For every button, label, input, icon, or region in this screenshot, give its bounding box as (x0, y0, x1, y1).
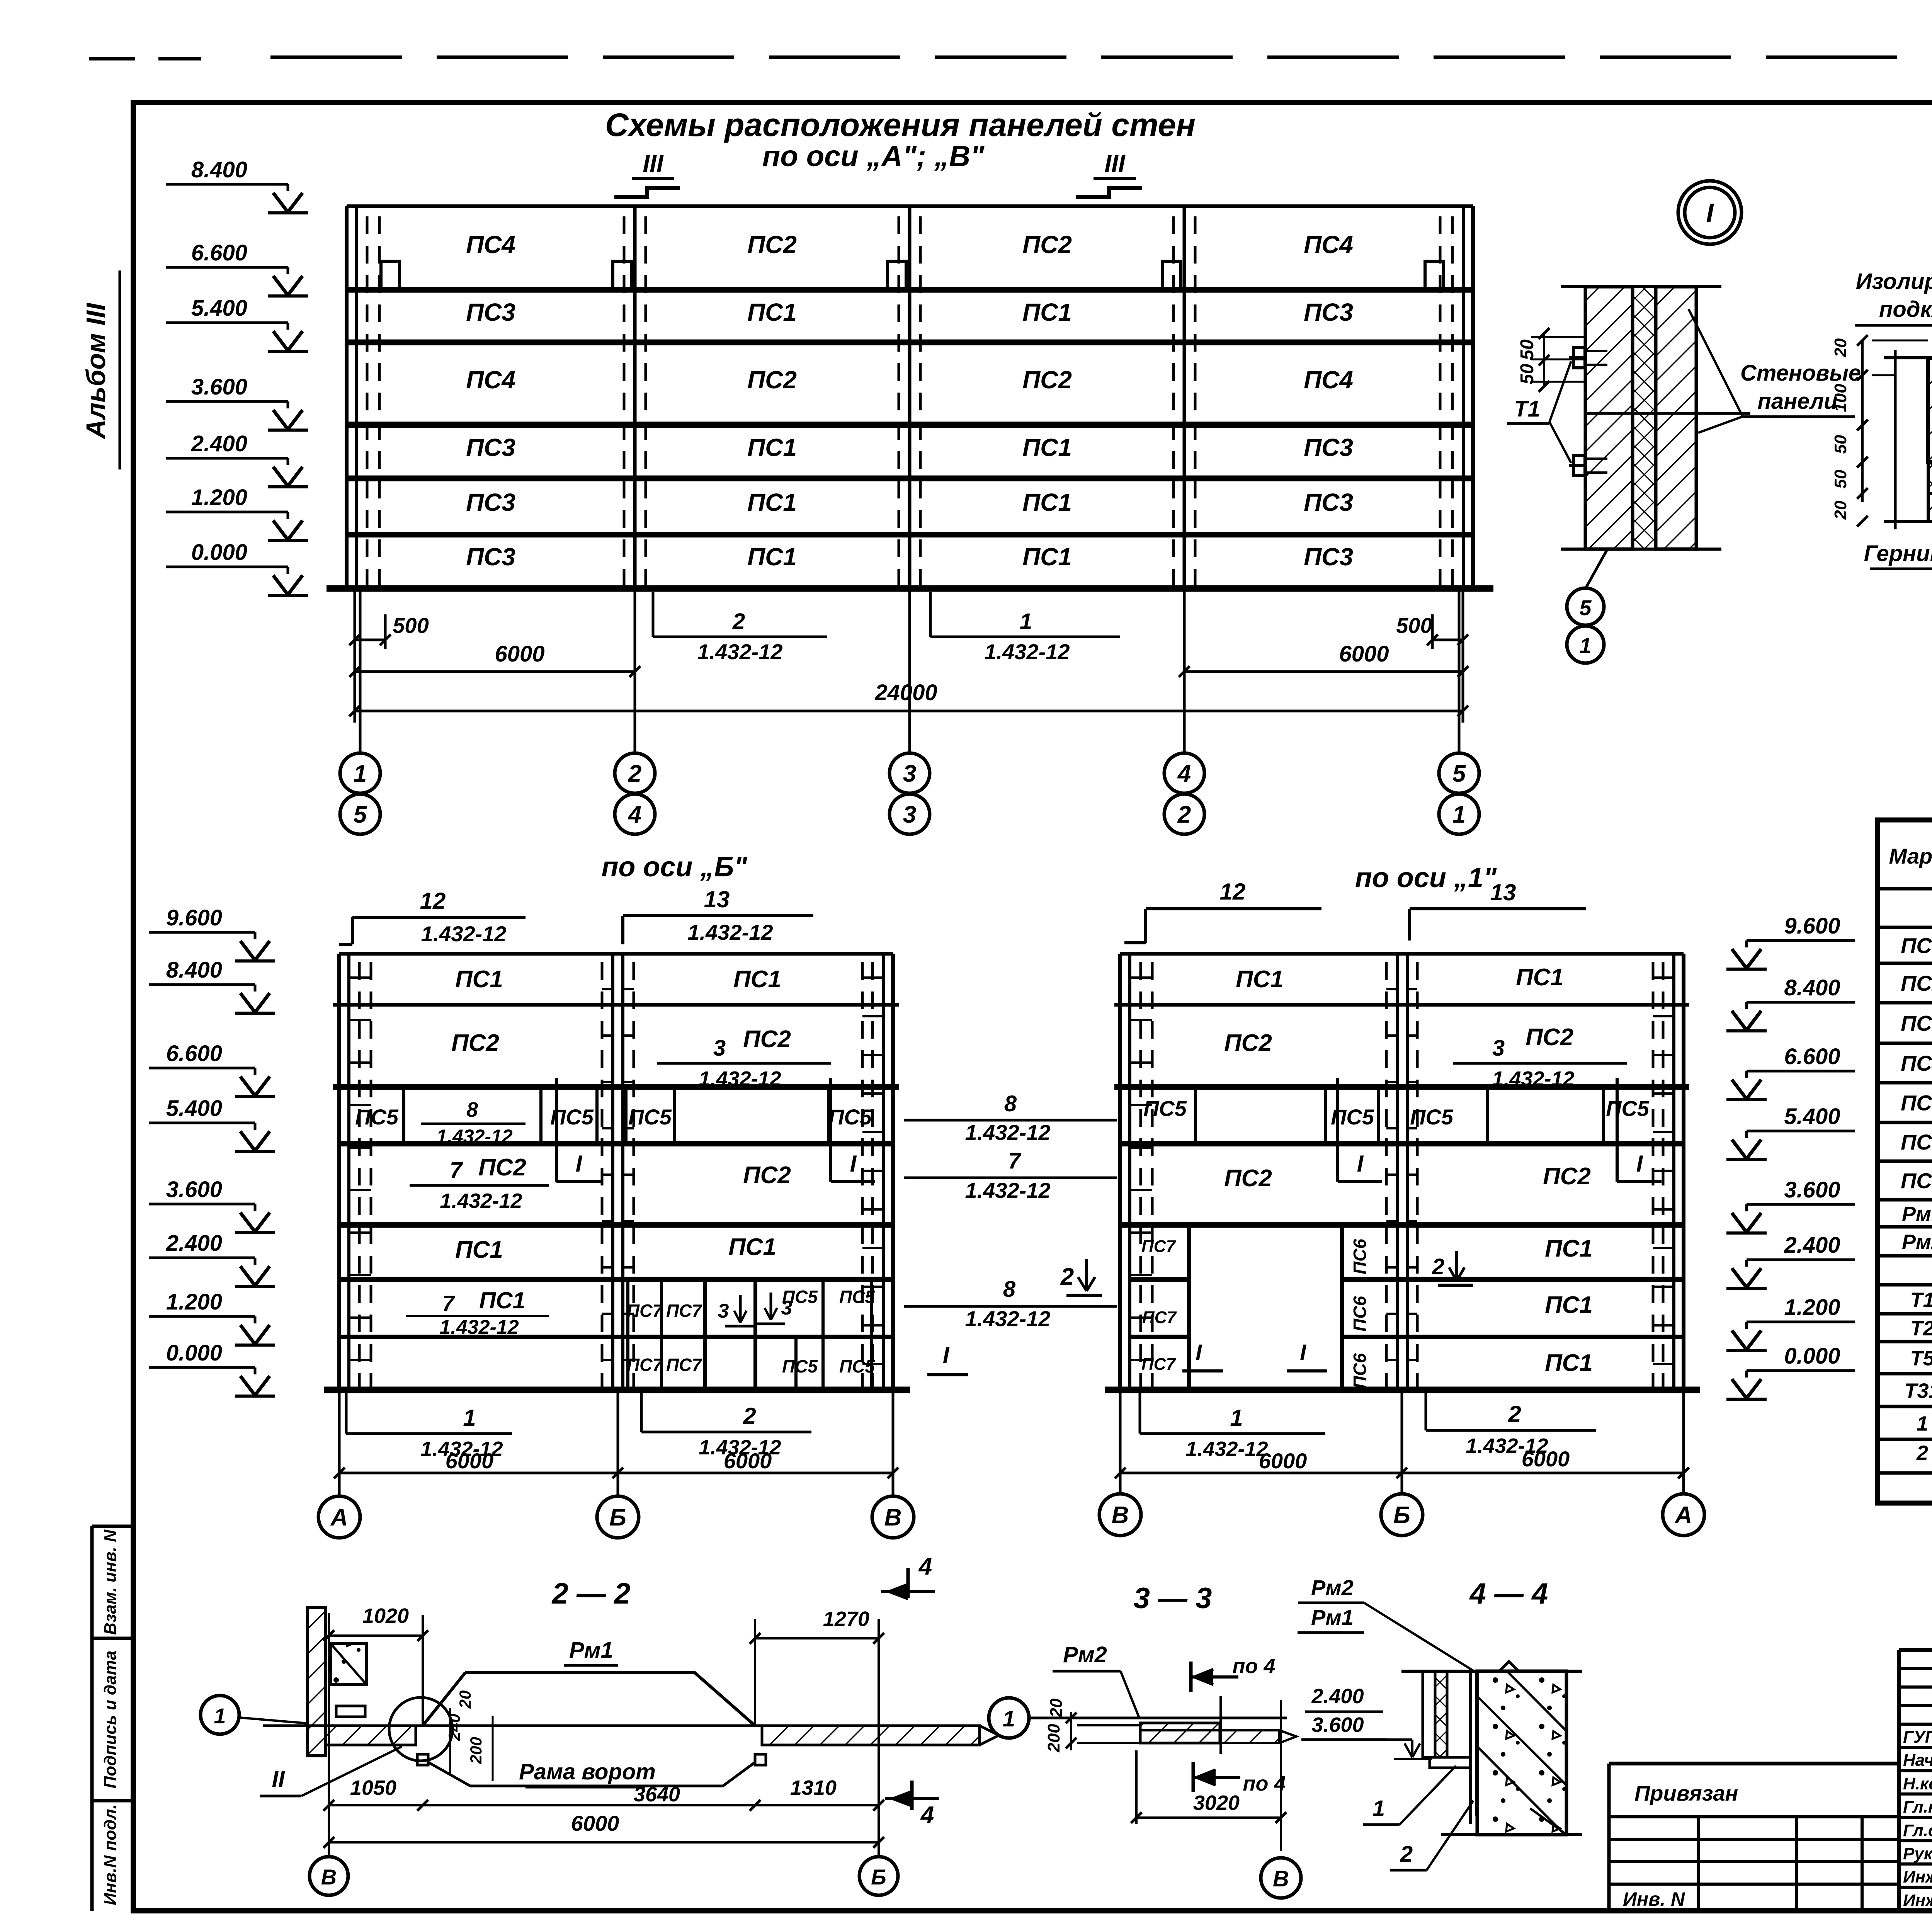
svg-text:7: 7 (450, 1158, 463, 1183)
left sub block Привязан (1609, 1762, 1899, 1765)
svg-text:Н.контр: Н.контр (1903, 1774, 1932, 1793)
elevation mark 9.600 (149, 905, 275, 961)
top scheme right edge column (1471, 206, 1475, 588)
svg-text:2: 2 (1508, 1401, 1521, 1427)
svg-text:В: В (1273, 1866, 1289, 1891)
detail II left break lines (1894, 350, 1897, 529)
4-4 wall layers (1423, 1671, 1435, 1757)
3-3 bubble В (1261, 1858, 1301, 1898)
scheme B ground line (324, 1387, 910, 1393)
svg-text:6.600: 6.600 (166, 1041, 222, 1066)
elevation mark 1.200 (149, 1289, 275, 1345)
elevation mark 3.600 (1726, 1177, 1855, 1233)
svg-text:4: 4 (628, 801, 641, 828)
elevation mark 6.600 (149, 1041, 275, 1097)
svg-text:ПС2: ПС2 (451, 1030, 499, 1056)
svg-text:Т5: Т5 (1910, 1347, 1932, 1370)
4-4 top line (1401, 1670, 1582, 1673)
detail I insulation layer (1633, 287, 1656, 549)
svg-text:3 — 3: 3 — 3 (1134, 1582, 1212, 1615)
svg-text:4: 4 (918, 1553, 932, 1580)
svg-text:1.200: 1.200 (166, 1289, 222, 1315)
elevation mark 8.400 (1726, 975, 1855, 1031)
svg-text:ПС1: ПС1 (747, 488, 797, 516)
scheme 1 right edge column (1682, 954, 1685, 1390)
svg-text:Рм2: Рм2 (1902, 1231, 1932, 1254)
svg-text:1.432-12: 1.432-12 (440, 1189, 522, 1213)
elevation mark 5.400 (149, 1096, 275, 1151)
svg-text:5: 5 (1452, 760, 1466, 787)
svg-text:20: 20 (1047, 1698, 1066, 1718)
svg-text:ПС1: ПС1 (728, 1234, 776, 1260)
svg-text:13: 13 (1490, 879, 1516, 905)
svg-text:ПС1: ПС1 (1022, 298, 1072, 326)
3-3 section mark по 4 top (1189, 1662, 1193, 1692)
3-3 thin lines left (1077, 1724, 1140, 1726)
svg-text:500: 500 (1396, 613, 1432, 638)
svg-text:ПС5: ПС5 (828, 1105, 872, 1129)
svg-text:4 — 4: 4 — 4 (1469, 1577, 1548, 1610)
scheme B dim line (339, 1472, 893, 1475)
svg-text:ПС3: ПС3 (466, 298, 515, 326)
svg-text:1.432-12: 1.432-12 (965, 1306, 1050, 1331)
svg-text:1: 1 (1372, 1796, 1385, 1821)
svg-text:50: 50 (1517, 339, 1537, 360)
svg-text:Альбом III: Альбом III (81, 303, 111, 440)
svg-text:ПС5: ПС5 (839, 1287, 875, 1307)
svg-text:Гл.спец.: Гл.спец. (1903, 1821, 1932, 1840)
svg-text:1.432-12: 1.432-12 (687, 920, 773, 944)
inter-scheme leader 8b / 1.432-12 (904, 1305, 1117, 1308)
svg-text:ПС5: ПС5 (628, 1105, 672, 1129)
axis bubbles row 1 (340, 753, 380, 793)
svg-text:Инженер: Инженер (1903, 1867, 1932, 1886)
svg-text:2: 2 (628, 760, 641, 787)
detail II lower band (1928, 493, 1932, 521)
svg-text:1310: 1310 (790, 1776, 837, 1799)
4-4 bottom line (1441, 1833, 1582, 1836)
svg-text:Рама ворот: Рама ворот (519, 1759, 656, 1784)
2-2 corner block (331, 1644, 366, 1684)
elevation mark 9.600 (1726, 913, 1855, 969)
svg-text:I: I (943, 1342, 950, 1368)
svg-text:III: III (1104, 150, 1126, 177)
4-4 vertical plate (1469, 1671, 1472, 1824)
left attribute strip (90, 1526, 94, 1911)
column top bracket (381, 261, 400, 290)
svg-text:I: I (850, 1151, 857, 1177)
svg-text:Инв. N: Инв. N (1623, 1888, 1685, 1910)
svg-text:ПС1: ПС1 (1545, 1235, 1593, 1262)
detail I leader to bubbles (1586, 549, 1607, 587)
svg-text:0.000: 0.000 (1784, 1344, 1840, 1369)
scheme 1 dim line (1120, 1472, 1684, 1475)
svg-text:1: 1 (214, 1704, 226, 1728)
svg-text:6000: 6000 (446, 1449, 494, 1473)
svg-text:ПС3: ПС3 (466, 488, 515, 516)
svg-text:ПС4: ПС4 (466, 231, 515, 259)
detail II main panel (1928, 358, 1932, 462)
svg-text:1.432-12: 1.432-12 (1185, 1437, 1268, 1461)
svg-text:1: 1 (1452, 801, 1466, 828)
scheme 1 axis extensions (1119, 1390, 1122, 1495)
svg-text:Рм1: Рм1 (1311, 1605, 1354, 1629)
top scheme horizontal panel joints (347, 204, 1473, 208)
svg-text:ПС2: ПС2 (743, 1162, 791, 1189)
scheme 1 left edge column (1118, 954, 1122, 1390)
scheme B column strip ladder marks (349, 976, 371, 979)
svg-text:ПС1: ПС1 (747, 298, 797, 326)
svg-text:ПС6: ПС6 (1350, 1296, 1370, 1332)
svg-text:ПС1: ПС1 (1901, 934, 1932, 958)
svg-text:3020: 3020 (1193, 1791, 1240, 1815)
svg-text:ПС2: ПС2 (478, 1154, 526, 1181)
scheme 1 column strip ladder marks (1130, 976, 1152, 979)
svg-text:12: 12 (420, 888, 446, 914)
svg-text:Т31: Т31 (1904, 1379, 1932, 1403)
detail I bubble 1 (1567, 626, 1604, 663)
scheme B axis column (611, 954, 614, 1390)
svg-text:Т1: Т1 (1514, 396, 1540, 422)
svg-text:ПС5: ПС5 (1143, 1096, 1187, 1121)
top scheme column axis line x=3065 (1183, 206, 1186, 588)
svg-text:ПС4: ПС4 (1901, 1051, 1932, 1075)
svg-text:1.432-12: 1.432-12 (1492, 1067, 1574, 1090)
elevation mark 5.400 (1726, 1104, 1855, 1160)
top scheme column axis line x=1643 (633, 206, 637, 588)
svg-text:Гернит: Гернит (1864, 541, 1932, 566)
svg-text:I: I (1706, 198, 1714, 228)
svg-text:1.432-12: 1.432-12 (421, 922, 506, 946)
svg-text:Рм2: Рм2 (1311, 1575, 1354, 1600)
svg-text:2: 2 (732, 609, 745, 634)
svg-text:ПС6: ПС6 (1350, 1353, 1370, 1389)
svg-text:0.000: 0.000 (166, 1340, 222, 1366)
svg-text:ПС1: ПС1 (455, 1236, 503, 1263)
scheme 1 axis column (1396, 954, 1399, 1390)
3-3 bubble 1 (989, 1698, 1029, 1738)
svg-text:ПС2: ПС2 (1022, 231, 1072, 259)
svg-text:ПС2: ПС2 (1526, 1024, 1573, 1051)
2-2 panel strip right (762, 1726, 980, 1745)
svg-text:Инв.N подл.: Инв.N подл. (101, 1804, 120, 1905)
svg-text:8.400: 8.400 (166, 957, 222, 983)
svg-text:II: II (272, 1766, 285, 1792)
svg-text:8.400: 8.400 (1784, 975, 1840, 1000)
svg-text:6000: 6000 (1339, 641, 1389, 667)
svg-text:3640: 3640 (634, 1783, 680, 1806)
svg-text:ПС1: ПС1 (747, 543, 797, 571)
svg-text:ПС1: ПС1 (1022, 434, 1072, 461)
svg-text:2: 2 (743, 1403, 756, 1429)
elevation mark 3.600 (149, 1177, 275, 1233)
elevation mark 0.000 (166, 540, 308, 595)
svg-text:12: 12 (1220, 879, 1246, 905)
detail I bubble (1678, 181, 1742, 244)
svg-text:2.400: 2.400 (1784, 1233, 1840, 1258)
svg-text:ПС6: ПС6 (1901, 1130, 1932, 1154)
inter-scheme leader 8 / 1.432-12 (904, 1119, 1117, 1122)
svg-text:1.432-12: 1.432-12 (436, 1126, 513, 1147)
elevation mark 0.000 (1726, 1344, 1855, 1399)
svg-text:2: 2 (1060, 1264, 1074, 1290)
svg-text:2.400: 2.400 (166, 1231, 222, 1256)
svg-text:по 4: по 4 (1232, 1655, 1275, 1678)
svg-text:3: 3 (713, 1036, 726, 1061)
svg-text:ПС2: ПС2 (1901, 971, 1932, 995)
2-2 left wall (308, 1607, 325, 1756)
detail II minwool band (1928, 462, 1932, 493)
svg-text:Б: Б (609, 1504, 626, 1531)
T1 leader detail I (1549, 361, 1571, 422)
svg-text:20: 20 (456, 1690, 474, 1709)
2-2 detail circle (389, 1697, 452, 1761)
svg-text:2.400: 2.400 (1311, 1685, 1364, 1708)
2-2 axis bubbles (310, 1857, 348, 1895)
svg-text:Схемы расположения панел: Схемы расположения панелей стен (605, 107, 1196, 143)
svg-text:Подпись и дата: Подпись и дата (101, 1651, 120, 1789)
svg-text:4: 4 (920, 1802, 934, 1828)
svg-text:ПС5: ПС5 (1606, 1096, 1650, 1121)
svg-text:6000: 6000 (724, 1449, 772, 1473)
detail I wall panel right layer (1656, 287, 1696, 549)
detail I mid joint (1585, 412, 1750, 415)
svg-text:ПС7: ПС7 (666, 1355, 702, 1375)
svg-text:2: 2 (1432, 1254, 1444, 1279)
svg-text:ПС3: ПС3 (1901, 1011, 1932, 1036)
elevation mark 6.600 (166, 240, 308, 296)
scheme 1 PS5 row cells (1194, 1087, 1197, 1144)
elevation mark 2.400 (166, 431, 308, 487)
3-3 section mark по 4 bottom (1192, 1762, 1195, 1792)
svg-text:24000: 24000 (874, 680, 937, 705)
elevation mark 3.600 (166, 374, 308, 430)
svg-text:Инженер: Инженер (1903, 1891, 1932, 1910)
spec table grid (1878, 820, 1932, 1503)
svg-text:3: 3 (781, 1297, 793, 1319)
2-2 gate frame bottom (428, 1762, 755, 1786)
svg-text:ПС5: ПС5 (1901, 1091, 1932, 1115)
svg-text:Б: Б (1393, 1502, 1410, 1529)
svg-text:6000: 6000 (1522, 1447, 1570, 1471)
elevation mark 8.400 (166, 157, 308, 213)
svg-text:5: 5 (354, 801, 367, 828)
svg-text:ПС1: ПС1 (479, 1287, 526, 1313)
svg-text:8: 8 (1003, 1277, 1016, 1302)
svg-text:ПС7: ПС7 (666, 1301, 702, 1321)
elevation mark 1.200 (166, 485, 308, 541)
svg-text:ПС3: ПС3 (466, 543, 515, 571)
detail I bottom break line (1561, 548, 1721, 551)
scheme B axis extensions (338, 1390, 341, 1496)
elevation mark 1.200 (1726, 1295, 1855, 1350)
elevation mark 0.000 (149, 1340, 275, 1396)
top scheme ground line (327, 585, 1493, 592)
title block signature table (1897, 1650, 1901, 1911)
svg-text:4: 4 (1177, 760, 1191, 787)
svg-text:Привязан: Привязан (1634, 1781, 1738, 1805)
scheme 1 ground line (1105, 1387, 1700, 1393)
svg-text:3.600: 3.600 (166, 1177, 222, 1202)
svg-text:ПС7: ПС7 (627, 1301, 663, 1321)
svg-text:1: 1 (354, 760, 367, 787)
svg-text:ПС2: ПС2 (1022, 366, 1072, 394)
svg-text:Изолирующая: Изолирующая (1856, 269, 1932, 294)
detail I wall panel left layer (1585, 287, 1633, 549)
svg-text:1.432-12: 1.432-12 (697, 639, 782, 664)
svg-text:500: 500 (393, 613, 429, 638)
svg-text:Рук. гр.: Рук. гр. (1903, 1844, 1932, 1863)
svg-text:5.400: 5.400 (1784, 1104, 1840, 1129)
svg-text:ПС6: ПС6 (1350, 1239, 1370, 1274)
svg-text:8: 8 (466, 1098, 478, 1121)
svg-text:ПС1: ПС1 (1516, 964, 1564, 991)
svg-text:Т2: Т2 (1910, 1317, 1932, 1340)
section 4 flag top (906, 1568, 910, 1598)
svg-text:1: 1 (1020, 609, 1032, 634)
svg-text:Марка: Марка (1889, 844, 1932, 868)
svg-text:III: III (643, 150, 664, 177)
svg-text:Рм1: Рм1 (569, 1638, 613, 1663)
svg-text:1.432-12: 1.432-12 (439, 1316, 519, 1338)
elevation mark 5.400 (166, 296, 308, 351)
2-2 frame squares (417, 1754, 428, 1765)
3-3 panel (1140, 1723, 1220, 1743)
svg-text:ПС4: ПС4 (466, 366, 515, 394)
svg-text:2 — 2: 2 — 2 (551, 1577, 631, 1610)
bubble 1 far left (201, 1696, 239, 1734)
svg-text:Гл.конст.: Гл.конст. (1903, 1798, 1932, 1816)
svg-text:0.000: 0.000 (191, 540, 247, 565)
svg-text:50: 50 (1831, 469, 1850, 488)
section I marks row4 (555, 1078, 558, 1182)
svg-text:6000: 6000 (571, 1811, 619, 1835)
svg-text:Взам. инв. N: Взам. инв. N (101, 1529, 120, 1635)
svg-text:240: 240 (445, 1714, 463, 1741)
svg-text:50: 50 (1831, 435, 1850, 454)
svg-text:Б: Б (871, 1865, 886, 1889)
svg-text:ПС3: ПС3 (466, 434, 515, 461)
svg-text:1050: 1050 (350, 1776, 396, 1799)
svg-text:Рм1: Рм1 (1902, 1202, 1932, 1226)
svg-text:по 4: по 4 (1243, 1772, 1286, 1795)
svg-text:панели: панели (1757, 389, 1837, 414)
svg-text:5.400: 5.400 (166, 1096, 222, 1121)
2-2 gate frame top (423, 1673, 755, 1726)
scheme 1 horizontal joints (1120, 952, 1684, 956)
3-3 extension lines (1135, 1750, 1138, 1824)
svg-text:1.432-12: 1.432-12 (699, 1067, 781, 1090)
svg-text:1.200: 1.200 (191, 485, 247, 510)
4-4 concrete mass (1477, 1671, 1566, 1835)
svg-text:ПС1: ПС1 (747, 434, 797, 461)
svg-text:ПС7: ПС7 (1142, 1308, 1177, 1327)
svg-text:ПС5: ПС5 (839, 1356, 875, 1376)
svg-text:3.600: 3.600 (1784, 1177, 1840, 1202)
svg-text:2: 2 (1916, 1442, 1928, 1465)
svg-text:8: 8 (1004, 1091, 1017, 1116)
svg-text:2: 2 (1177, 801, 1191, 828)
svg-text:ПС3: ПС3 (1304, 488, 1353, 516)
svg-text:ПС2: ПС2 (1224, 1030, 1272, 1056)
svg-text:I: I (1636, 1151, 1643, 1177)
top scheme left edge column (345, 206, 349, 588)
2-2 small plate (336, 1706, 365, 1717)
scheme 1 door jambs (1187, 1225, 1191, 1390)
svg-text:6000: 6000 (1259, 1449, 1307, 1473)
svg-text:Нач. АСО: Нач. АСО (1903, 1751, 1932, 1770)
svg-text:ПС5: ПС5 (782, 1356, 818, 1376)
svg-text:200: 200 (1044, 1724, 1063, 1753)
svg-text:Рм2: Рм2 (1063, 1642, 1107, 1667)
scheme B left edge column (337, 954, 341, 1390)
svg-text:Стеновые: Стеновые (1740, 361, 1861, 386)
svg-text:ПС2: ПС2 (1543, 1163, 1591, 1190)
svg-text:5: 5 (1579, 595, 1592, 620)
scheme B horizontal joints (339, 952, 893, 956)
svg-text:ПС1: ПС1 (1236, 966, 1284, 993)
svg-text:6.600: 6.600 (1784, 1044, 1840, 1069)
svg-text:ПС5: ПС5 (355, 1105, 399, 1129)
elevation mark 8.400 (149, 957, 275, 1013)
svg-text:подкладка: подкладка (1879, 297, 1932, 322)
svg-text:7: 7 (442, 1291, 455, 1315)
elevation mark 2.400 (1726, 1233, 1855, 1288)
svg-text:ПС4: ПС4 (1304, 231, 1353, 259)
svg-text:200: 200 (467, 1737, 485, 1764)
scheme B small cells dividers (626, 1279, 629, 1337)
inter-scheme leader 7 / 1.432-12 (904, 1177, 1117, 1179)
svg-text:ПС2: ПС2 (747, 231, 797, 259)
svg-text:ПС3: ПС3 (1304, 434, 1353, 461)
svg-text:В: В (1112, 1502, 1129, 1529)
svg-text:1.432-12: 1.432-12 (984, 639, 1070, 664)
svg-text:ПС3: ПС3 (1304, 543, 1353, 571)
svg-text:6.600: 6.600 (191, 240, 247, 265)
svg-text:I: I (576, 1151, 583, 1177)
svg-text:ПС1: ПС1 (455, 966, 503, 993)
svg-text:1: 1 (1917, 1412, 1928, 1435)
top scheme column axis line x=2354 (908, 206, 912, 588)
svg-text:3: 3 (903, 801, 916, 828)
svg-text:20: 20 (1831, 500, 1850, 520)
axis bubbles row 2 (340, 794, 380, 834)
svg-text:9.600: 9.600 (1784, 913, 1840, 939)
svg-text:3.600: 3.600 (1311, 1713, 1364, 1736)
svg-text:5.400: 5.400 (191, 296, 247, 321)
svg-text:ПС1: ПС1 (1022, 543, 1072, 571)
detail I bolt bottom (1569, 464, 1585, 467)
column top bracket (888, 261, 906, 290)
svg-text:Т1: Т1 (1910, 1289, 1932, 1312)
scheme B PS5 row cells (402, 1087, 405, 1144)
svg-text:ПС1: ПС1 (1545, 1292, 1593, 1318)
svg-text:В: В (884, 1504, 902, 1531)
svg-text:8.400: 8.400 (191, 157, 247, 182)
svg-text:1270: 1270 (823, 1607, 869, 1631)
svg-text:100: 100 (1831, 384, 1850, 412)
sheet outer top scan line (270, 56, 1932, 59)
detail II left dim chain (1861, 340, 1864, 502)
door opening jambs scheme B (703, 1279, 707, 1390)
svg-text:1: 1 (1230, 1405, 1243, 1431)
2-2 panel strip left (325, 1726, 416, 1745)
svg-text:13: 13 (704, 886, 730, 912)
svg-text:ПС7: ПС7 (1901, 1168, 1932, 1193)
svg-text:ПС7: ПС7 (627, 1355, 663, 1375)
dim extension verticals (354, 588, 356, 723)
svg-text:ГУП: ГУП (1903, 1728, 1932, 1747)
